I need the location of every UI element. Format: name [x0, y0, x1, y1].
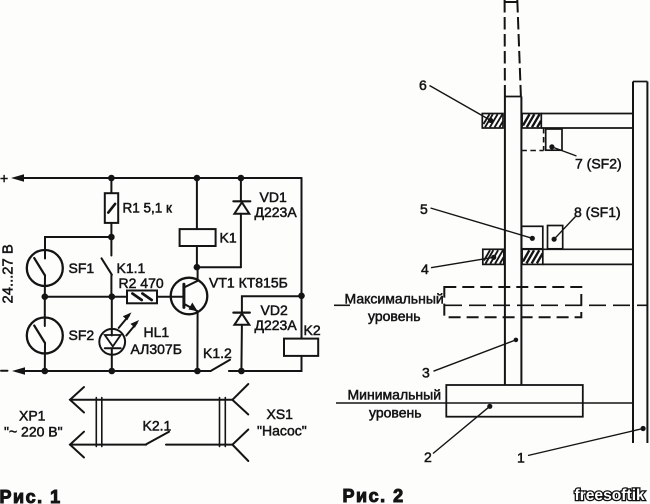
relay coil K2: [301, 296, 303, 339]
float switch SF2: [44, 297, 46, 326]
minus terminal: [1, 370, 8, 372]
svg-text:4: 4: [421, 261, 429, 277]
min level float item 2: [446, 385, 583, 417]
node SF1 bottom: [42, 293, 49, 300]
diode VD2: [233, 312, 249, 314]
svg-text:Минимальный: Минимальный: [348, 387, 442, 403]
socket XS1 pin top: [232, 384, 248, 415]
middle plate left hatched block: [483, 249, 504, 264]
wire to VD2: [242, 296, 302, 312]
top plate left hatched block: [482, 114, 503, 129]
svg-text:SF2: SF2: [69, 327, 95, 343]
svg-text:3: 3: [422, 365, 430, 381]
middle plate center hatched block: [522, 249, 543, 264]
wire base line left: [45, 296, 127, 298]
HL1 light arrows: [119, 316, 129, 328]
svg-text:HL1: HL1: [144, 324, 170, 340]
node bottom VD2: [238, 368, 245, 375]
magnet block 5: [522, 226, 543, 249]
svg-text:Рис. 1: Рис. 1: [0, 487, 62, 504]
transistor VT1: [171, 278, 208, 315]
wire bottom rail: [23, 370, 211, 372]
svg-text:Максимальный: Максимальный: [345, 291, 444, 307]
svg-text:8 (SF1): 8 (SF1): [574, 204, 621, 220]
wire 220V top: [70, 399, 232, 401]
connector XP1 pin bottom: [70, 432, 84, 458]
node under R1: [108, 234, 115, 241]
resistor R1: [105, 193, 118, 223]
contact K2.1: [146, 432, 169, 445]
svg-text:уровень: уровень: [368, 308, 421, 324]
node right branch: [298, 293, 305, 300]
node bottom emitter: [194, 368, 201, 375]
svg-text:R1 5,1 к: R1 5,1 к: [123, 201, 173, 216]
node collector: [194, 264, 201, 271]
diode VD1: [240, 178, 242, 201]
node top rail at VD1: [238, 175, 245, 182]
svg-text:K1: K1: [220, 230, 237, 246]
min level line: [336, 402, 633, 404]
socket XS1 pin bottom: [232, 430, 248, 462]
top plate right hatched block: [522, 114, 541, 129]
wire emitter: [196, 311, 198, 371]
wire R2 to base: [157, 296, 184, 298]
LED HL1: [111, 297, 113, 336]
switch 8 (SF1): [548, 226, 563, 249]
rod hidden part (dashed): [504, 0, 506, 97]
svg-text:6: 6: [419, 77, 427, 93]
svg-text:VT1 КТ815Б: VT1 КТ815Б: [209, 275, 288, 291]
svg-text:XP1: XP1: [19, 408, 46, 424]
wire 220V bottom left: [70, 444, 146, 446]
svg-text:Рис. 2: Рис. 2: [343, 486, 405, 504]
svg-text:SF1: SF1: [69, 260, 95, 276]
top plate right part: [541, 113, 633, 115]
right rail item 1: [633, 81, 647, 83]
wire rail to R1: [110, 178, 112, 193]
node bottom HL1: [109, 368, 116, 375]
svg-text:freesoftik: freesoftik: [575, 487, 646, 504]
max level float (dashed): [444, 287, 581, 317]
svg-text:5: 5: [420, 201, 428, 217]
wire node to SF1 top: [45, 237, 111, 259]
node K1.1 bottom: [109, 293, 116, 300]
svg-text:K1.1: K1.1: [117, 260, 146, 276]
svg-text:VD2: VD2: [261, 302, 288, 318]
svg-text:XS1: XS1: [267, 406, 294, 422]
relay coil K1: [196, 178, 198, 229]
svg-text:K1.2: K1.2: [203, 345, 232, 361]
svg-text:+: +: [0, 170, 8, 186]
svg-text:уровень: уровень: [369, 405, 422, 421]
svg-text:24...27 В: 24...27 В: [1, 244, 17, 303]
arrow left on top rail: [11, 174, 24, 182]
connector XP1 pin top: [70, 387, 84, 413]
svg-text:K2: K2: [304, 322, 321, 338]
contact K1.1: [110, 237, 112, 256]
wire R1 to node: [110, 223, 112, 237]
wire top rail: [22, 177, 302, 179]
connector boundary bars right: [219, 398, 221, 447]
node top rail at K1: [194, 175, 201, 182]
connector boundary bars left: [95, 398, 97, 447]
float switch SF1: [27, 250, 63, 286]
svg-text:"Насос": "Насос": [257, 423, 307, 439]
middle plate right part: [543, 248, 633, 250]
svg-text:K2.1: K2.1: [143, 418, 172, 434]
svg-text:2: 2: [424, 449, 432, 465]
node bottom SF2: [42, 368, 49, 375]
ghost box dashed (magnet position): [543, 128, 545, 151]
wire VD1 to collector node: [197, 266, 241, 268]
resistor R2: [127, 291, 157, 304]
svg-text:7 (SF2): 7 (SF2): [575, 156, 622, 172]
svg-text:VD1: VD1: [260, 189, 287, 205]
wire collector: [197, 267, 199, 281]
svg-text:Д223А: Д223А: [255, 317, 298, 333]
contact K1.2: [212, 360, 231, 371]
wire SF1 to node: [44, 276, 46, 297]
arrow left on bottom rail: [12, 367, 25, 375]
node top rail at R1: [108, 175, 115, 182]
svg-text:R2 470: R2 470: [119, 275, 164, 291]
switch 7 (SF2): [546, 129, 562, 150]
max level line: [334, 304, 350, 306]
rod item 3 (solid): [505, 96, 522, 98]
wire right branch: [301, 178, 303, 296]
svg-text:"~ 220 В": "~ 220 В": [4, 424, 63, 440]
svg-text:Д223А: Д223А: [255, 204, 298, 220]
svg-text:1: 1: [517, 450, 525, 466]
svg-text:АЛ307Б: АЛ307Б: [131, 341, 182, 357]
